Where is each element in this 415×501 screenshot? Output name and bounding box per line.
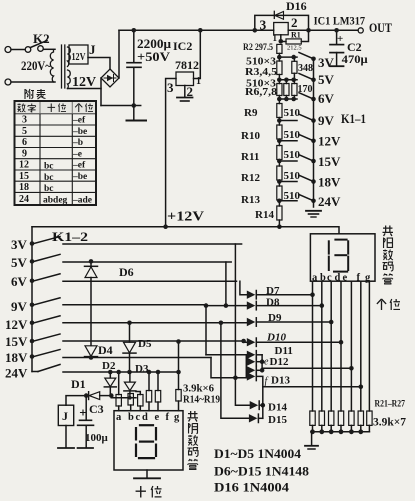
svg-text:D12: D12 bbox=[270, 356, 289, 368]
table header shiwei bbox=[47, 104, 55, 113]
K1-2 corner 24V bbox=[32, 371, 38, 373]
svg-text:510: 510 bbox=[284, 170, 301, 182]
K1-1 common bus bbox=[313, 59, 315, 207]
svg-text:170: 170 bbox=[298, 84, 313, 95]
wire K2 to transformer bbox=[43, 48, 55, 50]
wire IC1 out bbox=[288, 29, 358, 31]
svg-text:D4: D4 bbox=[98, 343, 113, 357]
svg-text:D16: D16 bbox=[286, 0, 307, 13]
IC2 pin1 wire to top rail bbox=[194, 30, 201, 78]
node H row bbox=[279, 200, 297, 202]
svg-text:e: e bbox=[155, 412, 160, 423]
cluster anode bus bbox=[245, 355, 247, 378]
svg-text:D1: D1 bbox=[71, 377, 86, 391]
svg-text:D15: D15 bbox=[268, 414, 287, 426]
12V upper label box bbox=[69, 45, 88, 64]
svg-text:f: f bbox=[166, 412, 170, 423]
table header fills bbox=[16, 102, 96, 114]
node C row bbox=[279, 98, 297, 100]
svg-text:D5: D5 bbox=[138, 338, 152, 350]
resistor R17 seg-d bbox=[148, 372, 150, 391]
display units common anode box bbox=[310, 234, 375, 281]
svg-text:bc: bc bbox=[44, 162, 54, 172]
svg-text:510: 510 bbox=[284, 190, 301, 202]
resistor R10 bbox=[277, 125, 282, 139]
cluster cathode bus bbox=[261, 355, 263, 371]
wire 9V to D8 bbox=[206, 305, 247, 307]
svg-text:D1~D5 1N4004: D1~D5 1N4004 bbox=[214, 446, 302, 461]
top rail plus bbox=[119, 29, 274, 31]
svg-text:–be: –be bbox=[72, 172, 87, 182]
svg-text:D9: D9 bbox=[268, 312, 282, 324]
capacitor C3 bbox=[85, 396, 87, 420]
mid vertical 3V drop to D14 bbox=[235, 244, 249, 405]
svg-text:K2: K2 bbox=[33, 31, 50, 46]
svg-text:R6,7,8: R6,7,8 bbox=[245, 87, 277, 98]
diode D10 bbox=[247, 338, 256, 346]
wire row 3V bbox=[63, 243, 242, 245]
K1-2 tap 12V bbox=[30, 321, 35, 326]
IC1 pin1 adj bbox=[280, 35, 282, 42]
svg-text:C3: C3 bbox=[89, 402, 104, 416]
resistor R3 bbox=[277, 61, 282, 75]
svg-text:R13: R13 bbox=[241, 194, 260, 206]
svg-text:c: c bbox=[136, 412, 141, 423]
wire 220V bottom bbox=[11, 81, 55, 83]
svg-text:24: 24 bbox=[19, 194, 29, 205]
wire row 5V bbox=[63, 261, 231, 263]
svg-text:3: 3 bbox=[167, 80, 174, 95]
terminal OUT bbox=[358, 28, 363, 33]
ground K1-1 bbox=[306, 210, 321, 212]
segment line c bbox=[330, 281, 332, 411]
svg-text:18V: 18V bbox=[318, 175, 341, 190]
display tens common cathode box bbox=[114, 411, 183, 470]
transformer core bbox=[62, 45, 65, 88]
resistor R26 bbox=[358, 411, 363, 425]
svg-text:g: g bbox=[174, 412, 180, 423]
svg-text:15: 15 bbox=[19, 171, 29, 182]
svg-text:D6: D6 bbox=[119, 265, 134, 279]
switch blade 24V bbox=[299, 195, 314, 201]
svg-text:15V: 15V bbox=[5, 334, 28, 349]
switch blade 3V bbox=[299, 53, 314, 59]
resistor R15 seg-b bbox=[128, 394, 133, 406]
svg-text:2200μ: 2200μ bbox=[137, 37, 171, 51]
switch blade 9V bbox=[299, 114, 314, 120]
svg-text:2: 2 bbox=[291, 15, 298, 30]
svg-text:+50V: +50V bbox=[137, 50, 170, 64]
svg-text:D8: D8 bbox=[266, 297, 280, 309]
resistor R27 bbox=[367, 411, 372, 425]
vertical label gongyin shuma guan bbox=[188, 411, 199, 422]
diode D13 bbox=[247, 372, 256, 380]
K1-2 tap 9V bbox=[30, 303, 35, 308]
mid vertical 18V drop to D13 bbox=[211, 358, 246, 378]
svg-text:9V: 9V bbox=[318, 113, 335, 128]
appendix table bbox=[15, 101, 97, 205]
svg-text:3.9k×7: 3.9k×7 bbox=[373, 415, 406, 429]
svg-text:100μ: 100μ bbox=[85, 432, 109, 444]
svg-text:12V: 12V bbox=[318, 134, 341, 149]
wire row 12V to D9 bbox=[63, 322, 247, 324]
diode D16 bypass bbox=[255, 15, 309, 30]
resistor R4 348 bbox=[292, 61, 297, 73]
cathode join D13 D14 D15 bbox=[262, 387, 264, 419]
svg-text:R10: R10 bbox=[241, 130, 260, 142]
svg-text:R11: R11 bbox=[241, 151, 259, 163]
svg-text:bc: bc bbox=[44, 173, 54, 183]
wire 220V top bbox=[11, 49, 25, 51]
svg-text:D3: D3 bbox=[135, 363, 149, 375]
wire segment f feed bbox=[263, 386, 361, 388]
wire upper secondary to bridge AC bbox=[88, 58, 110, 70]
bridge rectifier bbox=[101, 69, 119, 87]
svg-text:a: a bbox=[116, 412, 122, 423]
units digit 8 segments bbox=[329, 240, 348, 272]
capacitor C1 2200u bbox=[133, 30, 135, 62]
segment line g bbox=[368, 281, 370, 411]
svg-text:–ef: –ef bbox=[72, 116, 86, 126]
wire 15V to D10 bbox=[244, 341, 247, 342]
svg-text:12: 12 bbox=[19, 160, 29, 171]
diode D2 bbox=[108, 370, 113, 375]
diode D8 bbox=[247, 301, 256, 309]
resistor bottom stubs bbox=[313, 425, 370, 431]
svg-text:D6~D15 1N4148: D6~D15 1N4148 bbox=[214, 464, 310, 479]
svg-text:24V: 24V bbox=[5, 366, 28, 381]
switch K2 bbox=[25, 47, 31, 53]
svg-text:e: e bbox=[343, 273, 348, 284]
resistor R24 bbox=[338, 411, 343, 425]
svg-text:9: 9 bbox=[22, 149, 27, 160]
wire bridge plus up bbox=[118, 30, 120, 78]
resistor R23 bbox=[329, 411, 334, 425]
table frame bbox=[15, 101, 97, 205]
svg-text:510: 510 bbox=[284, 107, 301, 119]
node F row bbox=[279, 160, 297, 162]
resistor R14 seg-a bbox=[118, 372, 120, 395]
svg-text:–be: –be bbox=[72, 127, 87, 137]
ground symbol main bbox=[133, 106, 135, 120]
9V drop and branches bbox=[205, 305, 207, 355]
switch blade 5V bbox=[299, 74, 314, 80]
mid vertical 5V drop bbox=[225, 262, 227, 306]
resistor R16 seg-c bbox=[136, 392, 140, 395]
ground rail bottom of bridge bbox=[101, 105, 141, 107]
vertical label gongyang shuma guan bbox=[383, 226, 394, 237]
node A row bbox=[279, 56, 297, 58]
svg-text:IC2: IC2 bbox=[173, 39, 192, 53]
svg-text:–ef: –ef bbox=[72, 161, 86, 171]
svg-text:R14: R14 bbox=[255, 209, 274, 221]
node E row bbox=[279, 140, 297, 142]
svg-text:–ade: –ade bbox=[72, 196, 92, 206]
svg-text:–e: –e bbox=[72, 150, 82, 160]
svg-text:R9: R9 bbox=[244, 107, 258, 119]
IC2 pin3 wire output bbox=[166, 79, 176, 227]
svg-text:18V: 18V bbox=[5, 350, 28, 365]
svg-text:f: f bbox=[357, 273, 361, 284]
svg-text:R1: R1 bbox=[291, 31, 301, 40]
svg-text:K1–1: K1–1 bbox=[341, 111, 366, 126]
resistor R19 seg-g bbox=[178, 342, 180, 390]
svg-text:12V: 12V bbox=[72, 52, 87, 63]
node G row bbox=[279, 181, 297, 183]
resistor R1 bbox=[281, 41, 286, 43]
svg-text:R14~R19: R14~R19 bbox=[183, 395, 220, 406]
IC1 LM317 box bbox=[274, 23, 289, 35]
diode D15 bbox=[249, 414, 258, 422]
svg-text:348: 348 bbox=[298, 63, 313, 74]
svg-text:12V: 12V bbox=[5, 317, 28, 332]
wire segment e feed bbox=[262, 367, 351, 369]
ground bus units bbox=[311, 431, 369, 433]
transformer T primary winding bbox=[50, 50, 53, 83]
K1-2 tap 6V bbox=[30, 279, 35, 284]
switch blade 18V bbox=[299, 175, 314, 181]
relay J ground bbox=[65, 426, 67, 448]
svg-text:+: + bbox=[337, 33, 343, 45]
svg-text:J: J bbox=[62, 409, 68, 423]
resistor R13 bbox=[277, 186, 282, 200]
svg-text:9V: 9V bbox=[11, 299, 28, 314]
segment line e bbox=[350, 281, 352, 411]
svg-text:+12V: +12V bbox=[167, 210, 204, 225]
svg-text:OUT: OUT bbox=[369, 20, 392, 35]
svg-text:6: 6 bbox=[22, 137, 27, 148]
resistor R18 seg-e bbox=[157, 372, 159, 391]
diode D12b bbox=[247, 366, 256, 374]
diode D9 bbox=[247, 318, 256, 326]
svg-text:3: 3 bbox=[260, 18, 267, 33]
svg-text:510: 510 bbox=[284, 149, 301, 161]
K1-2 tap 3V bbox=[30, 241, 35, 246]
node line to resistors bbox=[111, 396, 136, 398]
svg-text:12V: 12V bbox=[72, 75, 96, 90]
svg-text:6V: 6V bbox=[11, 274, 28, 289]
svg-text:b: b bbox=[320, 273, 326, 284]
segment line f bbox=[360, 281, 362, 411]
resistor R7 bbox=[284, 84, 289, 96]
svg-text:D7: D7 bbox=[266, 285, 280, 297]
K1-2 tap 15V bbox=[30, 339, 35, 344]
svg-text:24V: 24V bbox=[318, 194, 341, 209]
resistor R11 bbox=[277, 146, 282, 160]
svg-text:IC1 LM317: IC1 LM317 bbox=[314, 14, 366, 28]
resistor R25 bbox=[349, 411, 354, 425]
label shiwei bottom bbox=[136, 486, 146, 498]
ground symbol units bbox=[311, 432, 313, 445]
svg-text:1: 1 bbox=[273, 33, 278, 43]
node B row bbox=[279, 79, 297, 81]
svg-text:6V: 6V bbox=[318, 91, 335, 106]
diode D14 bbox=[250, 401, 259, 409]
svg-text:5V: 5V bbox=[318, 72, 335, 87]
tens digit 8 segments bbox=[136, 425, 156, 458]
resistor R14 bbox=[277, 206, 282, 220]
wire row 9V bbox=[63, 304, 206, 306]
svg-text:D16 1N4004: D16 1N4004 bbox=[214, 480, 290, 495]
svg-text:D14: D14 bbox=[268, 402, 287, 414]
capacitor C2 bbox=[336, 30, 338, 44]
svg-text:510: 510 bbox=[284, 129, 301, 141]
svg-text:18: 18 bbox=[19, 182, 29, 193]
svg-text:c: c bbox=[327, 273, 332, 284]
node D row bbox=[279, 120, 297, 122]
svg-text:15V: 15V bbox=[318, 154, 341, 169]
tens common pin bbox=[146, 470, 148, 478]
resistor R12 bbox=[277, 166, 282, 180]
diode D5 bbox=[127, 321, 132, 326]
terminal input left top bbox=[5, 47, 11, 53]
segment line a bbox=[312, 281, 314, 411]
resistor R2 bbox=[277, 44, 282, 53]
segment line d bbox=[340, 281, 342, 411]
svg-text:R12: R12 bbox=[241, 172, 260, 184]
wire row 6V bbox=[63, 280, 237, 282]
svg-text:R3,4,5: R3,4,5 bbox=[245, 67, 277, 78]
svg-text:1: 1 bbox=[196, 76, 201, 87]
svg-text:3V: 3V bbox=[318, 55, 335, 70]
wire row 15V bbox=[63, 340, 244, 342]
svg-text:–b: –b bbox=[72, 138, 83, 148]
svg-text:R21–R27: R21–R27 bbox=[375, 399, 406, 409]
label gewei right bbox=[377, 299, 386, 310]
svg-text:510×3: 510×3 bbox=[246, 57, 276, 68]
resistor R8 170 bbox=[292, 84, 297, 96]
K1-2 tap 5V bbox=[30, 259, 35, 264]
wire row 18V bbox=[63, 357, 211, 359]
wire 9V to cluster bbox=[206, 354, 247, 356]
IC2 pin2 ground bbox=[184, 86, 186, 97]
svg-text:g: g bbox=[365, 273, 371, 284]
K1-2 bus bbox=[31, 227, 33, 372]
segment line b bbox=[321, 281, 323, 411]
svg-text:3.9k×6: 3.9k×6 bbox=[183, 384, 214, 395]
diode D3 bbox=[129, 372, 131, 382]
svg-text:5: 5 bbox=[22, 126, 27, 137]
mid vertical 12V drop to D15 bbox=[221, 323, 249, 419]
mid vertical 6V drop to D7 bbox=[240, 281, 247, 294]
svg-text:220V~: 220V~ bbox=[21, 59, 51, 73]
wire lower secondary to bridge AC bbox=[68, 88, 102, 90]
svg-text:b: b bbox=[128, 412, 134, 423]
svg-text:D10: D10 bbox=[266, 332, 286, 344]
svg-text:e: e bbox=[264, 357, 269, 368]
resistor R6 bbox=[277, 84, 282, 96]
resistor R21 bbox=[310, 411, 315, 425]
switch blade 12V bbox=[299, 135, 314, 141]
svg-text:3: 3 bbox=[22, 115, 27, 126]
svg-text:d: d bbox=[142, 412, 148, 423]
svg-text:3V: 3V bbox=[11, 237, 28, 252]
svg-text:R2 297.5: R2 297.5 bbox=[243, 43, 273, 53]
wire bridge minus down bbox=[100, 78, 102, 106]
transformer secondary winding upper bbox=[68, 47, 71, 67]
svg-text:470μ: 470μ bbox=[342, 52, 368, 66]
label fu biao bbox=[25, 89, 34, 99]
svg-text:D13: D13 bbox=[271, 375, 290, 387]
IC2 7812 box bbox=[176, 72, 194, 86]
transformer secondary winding lower bbox=[68, 70, 71, 89]
table header shuzi bbox=[17, 104, 25, 113]
diode D7 bbox=[247, 291, 256, 299]
svg-text:5V: 5V bbox=[11, 255, 28, 270]
table header gewei bbox=[75, 104, 82, 113]
svg-text:2: 2 bbox=[187, 84, 194, 99]
resistor R22 bbox=[319, 411, 324, 425]
svg-text:J: J bbox=[89, 42, 96, 57]
svg-text:d: d bbox=[335, 273, 341, 284]
svg-text:abdeg: abdeg bbox=[43, 196, 68, 206]
switch blade 6V bbox=[299, 93, 314, 99]
+12V rail bbox=[32, 227, 339, 234]
K1-2 tap 18V bbox=[30, 354, 35, 359]
diode D12 bbox=[247, 358, 256, 366]
svg-text:bc: bc bbox=[44, 184, 54, 194]
diode D4 bbox=[85, 346, 97, 357]
wire row 24V bbox=[63, 371, 179, 373]
svg-text:7812: 7812 bbox=[175, 58, 199, 72]
resistor R9 bbox=[277, 104, 282, 118]
svg-text:D2: D2 bbox=[102, 360, 116, 372]
switch blade 15V bbox=[299, 155, 314, 161]
svg-text:212.5: 212.5 bbox=[287, 45, 302, 52]
terminal input left bottom bbox=[5, 79, 11, 85]
diode D6 bbox=[89, 259, 94, 264]
diode D11 bbox=[247, 351, 256, 359]
diode D1 bbox=[66, 396, 86, 406]
svg-text:a: a bbox=[312, 273, 318, 284]
relay J box bbox=[58, 405, 73, 425]
svg-text:K1–2: K1–2 bbox=[52, 229, 88, 244]
